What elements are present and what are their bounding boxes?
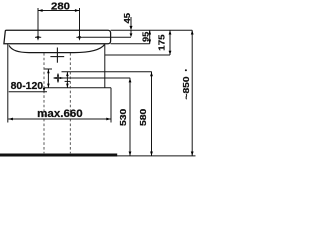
tap hole right: cross tick [76, 36, 82, 38]
dimension max.660 line [8, 118, 111, 120]
small dim B vertical x=67.4 [66, 72, 68, 88]
dashed supply line left x=44 [43, 53, 45, 153]
leader bowl bottom (y=55) to 175 dim [105, 54, 170, 56]
leader drain center (y=81) to 530 dim [54, 77, 131, 79]
dimension 580 vertical [151, 72, 153, 156]
svg-text:max.660: max.660 [37, 108, 82, 120]
horizontal line y=87.7 under siphon to right extension [44, 87, 111, 89]
svg-text:175: 175 [157, 34, 167, 51]
drain outlet crosshair [57, 74, 59, 83]
tap hole left: cross tick [35, 36, 41, 38]
dimension 280 right arrow [75, 9, 79, 12]
dimension 280 left arrow [38, 9, 42, 12]
dimension 530 vertical [129, 78, 131, 156]
tap hole right: extension line from 280 dim [79, 8, 81, 37]
svg-text:580: 580 [138, 108, 148, 126]
svg-text:530: 530 [118, 108, 128, 126]
floor line thin segment [117, 155, 196, 157]
svg-text:~850: ~850 [181, 76, 191, 99]
dashed drain line x=70.3 [69, 53, 71, 153]
svg-text:280: 280 [51, 1, 70, 12]
dimension 175 vertical [169, 30, 171, 55]
floor line thick segment [0, 154, 117, 157]
leader rim bottom (y=43.8) to 95 dim [111, 43, 150, 45]
leader drain top (y=74) to 580 dim [62, 71, 152, 73]
drain outlet cross at bowl bottom [56, 48, 58, 63]
dimension 45 vertical upper segment with down arrow [130, 17, 132, 27]
down arrowhead on dashed line at 80-120 underline [43, 88, 46, 92]
tap hole left: down arrowhead [37, 36, 40, 41]
leader rim top (y=30.2) to 850 dim [111, 29, 193, 31]
leader tap level (y=37.3) to 45 dim [83, 36, 131, 38]
tick at top of dim A [45, 68, 53, 70]
basin body left edge / max.660 left extension [7, 44, 9, 123]
dimension 95 vertical [149, 30, 151, 44]
washbasin rim (front view slab) [4, 30, 111, 44]
tap hole left: extension line from 280 dim [37, 8, 39, 37]
dimension ~850 vertical [191, 30, 193, 156]
svg-text:80-120: 80-120 [11, 80, 44, 92]
max.660 right extension line x=110 [110, 88, 112, 123]
tap hole right: down arrowhead [78, 36, 81, 41]
drain outlet flange line [50, 56, 64, 58]
basin body right edge [104, 44, 106, 87]
svg-text:95: 95 [141, 32, 151, 43]
basin bowl underside curve [9, 44, 105, 52]
asterisk dot of ~850 [185, 69, 187, 71]
svg-text:45: 45 [122, 13, 132, 24]
small dim A (80-120) vertical x=48.4 [47, 69, 49, 88]
80-120 underline leader [9, 91, 47, 93]
dimension 280 line [38, 10, 80, 12]
dimension 45 lower segment with down arrow [130, 30, 132, 34]
